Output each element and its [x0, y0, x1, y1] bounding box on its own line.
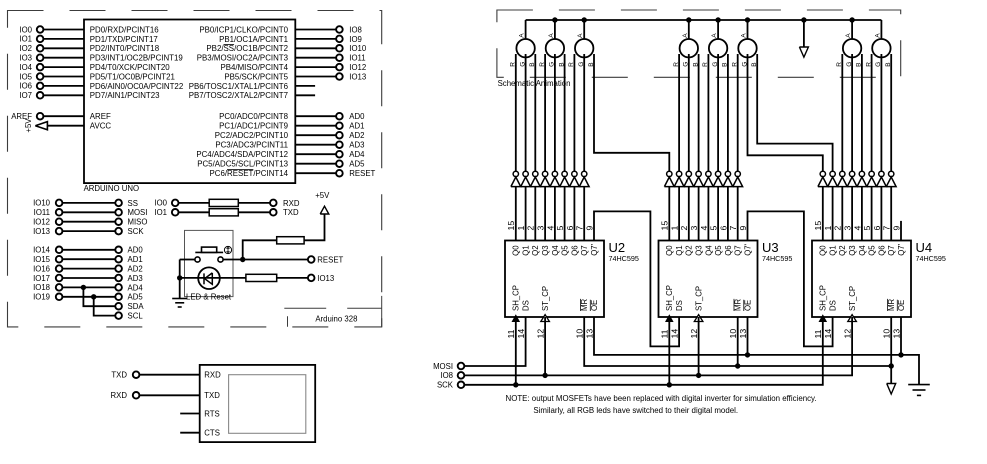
svg-text:IO3: IO3	[19, 54, 32, 63]
svg-text:6: 6	[718, 226, 728, 231]
svg-text:SCK: SCK	[128, 227, 145, 236]
svg-text:4: 4	[699, 226, 709, 231]
svg-text:A: A	[845, 33, 852, 38]
svg-text:RXD: RXD	[283, 199, 300, 208]
svg-text:Q3: Q3	[695, 245, 704, 255]
svg-text:DS: DS	[675, 300, 684, 311]
svg-text:IO4: IO4	[19, 63, 32, 72]
svg-text:IO15: IO15	[33, 255, 51, 264]
svg-text:IO19: IO19	[33, 293, 50, 302]
svg-text:MISO: MISO	[128, 218, 148, 227]
svg-text:+5V: +5V	[315, 191, 330, 200]
svg-text:AD4: AD4	[128, 283, 144, 292]
svg-text:RESET: RESET	[349, 169, 375, 178]
svg-text:74HC595: 74HC595	[762, 254, 792, 263]
svg-text:U2: U2	[609, 240, 626, 255]
svg-text:A: A	[682, 33, 689, 38]
svg-text:DS: DS	[522, 300, 531, 311]
svg-text:AD0: AD0	[349, 112, 365, 121]
svg-text:CTS: CTS	[204, 429, 220, 438]
svg-text:11: 11	[660, 329, 670, 338]
svg-text:IO8: IO8	[440, 371, 453, 380]
svg-text:IO14: IO14	[33, 246, 51, 255]
svg-text:Q7': Q7'	[743, 243, 752, 255]
svg-text:ST_CP: ST_CP	[541, 286, 550, 311]
svg-text:AD5: AD5	[128, 293, 144, 302]
svg-text:AD2: AD2	[349, 131, 364, 140]
svg-text:74HC595: 74HC595	[609, 254, 639, 263]
svg-text:AD1: AD1	[349, 122, 364, 131]
svg-text:12: 12	[689, 329, 699, 339]
svg-text:A: A	[548, 33, 555, 38]
svg-text:14: 14	[670, 329, 680, 339]
svg-text:OE: OE	[897, 300, 906, 311]
svg-text:IO11: IO11	[34, 208, 50, 217]
svg-text:10: 10	[728, 329, 738, 339]
svg-text:15: 15	[813, 221, 823, 231]
svg-text:3: 3	[843, 226, 853, 231]
svg-text:PD2/INT0/PCINT18: PD2/INT0/PCINT18	[90, 44, 160, 53]
svg-text:Q6: Q6	[724, 245, 733, 255]
svg-text:A: A	[711, 33, 718, 38]
svg-text:2: 2	[526, 226, 536, 231]
svg-text:Q6: Q6	[877, 245, 886, 255]
svg-text:Q2: Q2	[531, 245, 540, 255]
svg-text:IO0: IO0	[154, 199, 167, 208]
svg-text:PD1/TXD/PCINT17: PD1/TXD/PCINT17	[90, 35, 158, 44]
svg-text:IO1: IO1	[19, 35, 32, 44]
svg-text:+5V: +5V	[24, 118, 33, 133]
svg-text:9: 9	[584, 226, 594, 231]
svg-text:9: 9	[891, 226, 901, 231]
svg-text:SH_CP: SH_CP	[512, 285, 521, 311]
svg-text:AD1: AD1	[128, 255, 143, 264]
svg-text:AD3: AD3	[128, 274, 143, 283]
svg-text:SS: SS	[128, 199, 138, 208]
svg-text:10: 10	[882, 329, 892, 339]
svg-text:10: 10	[575, 329, 585, 339]
svg-text:AD4: AD4	[349, 150, 365, 159]
svg-text:7: 7	[575, 226, 585, 231]
svg-text:OE: OE	[590, 300, 599, 311]
svg-text:MR: MR	[580, 299, 589, 311]
svg-text:SCK: SCK	[437, 381, 454, 390]
svg-text:PC6/RESET/PCINT14: PC6/RESET/PCINT14	[209, 169, 288, 178]
svg-text:11: 11	[506, 329, 516, 338]
svg-text:13: 13	[584, 329, 594, 339]
svg-text:AD3: AD3	[349, 141, 364, 150]
svg-text:IO8: IO8	[349, 25, 362, 34]
svg-text:11: 11	[813, 329, 823, 338]
svg-text:Q0: Q0	[665, 245, 674, 256]
svg-text:4: 4	[545, 226, 555, 231]
svg-text:Q7': Q7'	[590, 243, 599, 255]
svg-text:Schematic Animation: Schematic Animation	[498, 79, 571, 88]
svg-text:Q0: Q0	[512, 245, 521, 256]
svg-text:PC4/ADC4/SDA/PCINT12: PC4/ADC4/SDA/PCINT12	[196, 150, 288, 159]
svg-text:U3: U3	[762, 240, 779, 255]
svg-text:RTS: RTS	[204, 409, 219, 418]
svg-text:IO12: IO12	[349, 63, 366, 72]
svg-text:IO5: IO5	[19, 72, 32, 81]
svg-text:7: 7	[728, 226, 738, 231]
svg-text:PD5/T1/OC0B/PCINT21: PD5/T1/OC0B/PCINT21	[90, 72, 175, 81]
svg-text:PC2/ADC2/PCINT10: PC2/ADC2/PCINT10	[215, 131, 289, 140]
svg-text:PC3/ADC3/PCINT11: PC3/ADC3/PCINT11	[215, 141, 288, 150]
svg-text:PB7/TOSC2/XTAL2/PCINT7: PB7/TOSC2/XTAL2/PCINT7	[189, 91, 288, 100]
svg-text:12: 12	[843, 329, 853, 339]
svg-text:SDA: SDA	[128, 302, 145, 311]
svg-text:A: A	[741, 33, 748, 38]
svg-text:Q7: Q7	[580, 245, 589, 255]
svg-text:Q1: Q1	[522, 245, 531, 255]
svg-text:RXD: RXD	[204, 371, 221, 380]
svg-text:Q5: Q5	[714, 245, 723, 256]
svg-text:PB1/OC1A/PCINT1: PB1/OC1A/PCINT1	[219, 35, 288, 44]
svg-text:RXD: RXD	[111, 391, 128, 400]
svg-text:RESET: RESET	[317, 255, 343, 264]
svg-text:ARDUINO UNO: ARDUINO UNO	[84, 184, 139, 193]
svg-text:Q1: Q1	[829, 245, 838, 255]
svg-text:PB5/SCK/PCINT5: PB5/SCK/PCINT5	[224, 72, 288, 81]
svg-text:LED & Reset: LED & Reset	[186, 293, 232, 302]
svg-text:IO18: IO18	[33, 283, 50, 292]
svg-text:Q4: Q4	[551, 245, 560, 256]
svg-text:IO13: IO13	[33, 227, 50, 236]
svg-text:NOTE: output MOSFETs have been: NOTE: output MOSFETs have been replaced …	[506, 394, 817, 403]
svg-text:MR: MR	[734, 299, 743, 311]
svg-text:5: 5	[709, 226, 719, 231]
svg-text:PB0/ICP1/CLKO/PCINT0: PB0/ICP1/CLKO/PCINT0	[199, 25, 288, 34]
svg-text:MOSI: MOSI	[433, 362, 453, 371]
svg-text:MR: MR	[887, 299, 896, 311]
svg-text:5: 5	[862, 226, 872, 231]
svg-text:PD3/INT1/OC2B/PCINT19: PD3/INT1/OC2B/PCINT19	[90, 54, 184, 63]
svg-text:Q2: Q2	[838, 245, 847, 255]
svg-text:PC0/ADC0/PCINT8: PC0/ADC0/PCINT8	[219, 112, 288, 121]
svg-text:3: 3	[536, 226, 546, 231]
svg-text:Q4: Q4	[704, 245, 713, 256]
svg-text:13: 13	[738, 329, 748, 339]
svg-text:1: 1	[516, 226, 526, 231]
svg-text:ST_CP: ST_CP	[695, 286, 704, 311]
svg-text:2: 2	[833, 226, 843, 231]
svg-text:PC1/ADC1/PCINT9: PC1/ADC1/PCINT9	[219, 122, 288, 131]
svg-text:IO16: IO16	[33, 264, 50, 273]
svg-text:IO7: IO7	[19, 91, 32, 100]
svg-text:IO10: IO10	[349, 44, 367, 53]
svg-text:TXD: TXD	[283, 208, 299, 217]
svg-text:IO12: IO12	[33, 218, 50, 227]
svg-text:14: 14	[823, 329, 833, 339]
svg-text:AD5: AD5	[349, 160, 365, 169]
svg-text:Q1: Q1	[675, 245, 684, 255]
svg-text:9: 9	[738, 226, 748, 231]
svg-text:PD6/AIN0/OC0A/PCINT22: PD6/AIN0/OC0A/PCINT22	[90, 82, 183, 91]
svg-text:Q0: Q0	[819, 245, 828, 256]
svg-text:IO2: IO2	[19, 44, 32, 53]
svg-text:4: 4	[852, 226, 862, 231]
svg-text:Q7: Q7	[734, 245, 743, 255]
svg-text:PB2/SS/OC1B/PCINT2: PB2/SS/OC1B/PCINT2	[206, 44, 288, 53]
svg-text:SH_CP: SH_CP	[819, 285, 828, 311]
svg-text:A: A	[577, 33, 584, 38]
svg-text:1: 1	[670, 226, 680, 231]
svg-text:7: 7	[882, 226, 892, 231]
svg-text:14: 14	[516, 329, 526, 339]
svg-text:AD2: AD2	[128, 265, 143, 274]
svg-text:PB6/TOSC1/XTAL1/PCINT6: PB6/TOSC1/XTAL1/PCINT6	[189, 82, 289, 91]
svg-text:Q2: Q2	[685, 245, 694, 255]
svg-text:6: 6	[872, 226, 882, 231]
svg-text:IO11: IO11	[349, 54, 365, 63]
svg-text:Q3: Q3	[541, 245, 550, 255]
svg-text:PB4/MISO/PCINT4: PB4/MISO/PCINT4	[220, 63, 288, 72]
svg-text:TXD: TXD	[111, 371, 127, 380]
svg-text:Q4: Q4	[858, 245, 867, 256]
svg-text:IO10: IO10	[33, 199, 51, 208]
svg-text:IO0: IO0	[19, 25, 32, 34]
svg-text:12: 12	[536, 329, 546, 339]
svg-text:6: 6	[565, 226, 575, 231]
svg-text:IO1: IO1	[154, 208, 167, 217]
svg-text:AREF: AREF	[90, 112, 111, 121]
svg-text:ST_CP: ST_CP	[848, 286, 857, 311]
svg-text:AVCC: AVCC	[90, 122, 112, 131]
svg-text:15: 15	[660, 221, 670, 231]
svg-text:OE: OE	[743, 300, 752, 311]
svg-text:AD0: AD0	[128, 246, 144, 255]
svg-text:74HC595: 74HC595	[916, 254, 946, 263]
svg-text:IO6: IO6	[19, 82, 32, 91]
svg-text:MOSI: MOSI	[128, 208, 148, 217]
svg-text:5: 5	[555, 226, 565, 231]
svg-text:SCL: SCL	[128, 312, 144, 321]
svg-text:Similarly, all RGB leds have s: Similarly, all RGB leds have switched to…	[533, 406, 738, 415]
svg-text:DS: DS	[829, 300, 838, 311]
svg-text:PC5/ADC5/SCL/PCINT13: PC5/ADC5/SCL/PCINT13	[197, 160, 288, 169]
svg-text:U4: U4	[916, 240, 933, 255]
svg-text:1: 1	[823, 226, 833, 231]
svg-text:A: A	[519, 33, 526, 38]
svg-text:IO17: IO17	[33, 274, 50, 283]
svg-text:13: 13	[891, 329, 901, 339]
svg-text:Arduino 328: Arduino 328	[315, 314, 357, 323]
svg-text:Q5: Q5	[561, 245, 570, 256]
svg-text:PD0/RXD/PCINT16: PD0/RXD/PCINT16	[90, 25, 159, 34]
svg-text:Q7: Q7	[887, 245, 896, 255]
svg-text:SH_CP: SH_CP	[665, 285, 674, 311]
svg-text:Q5: Q5	[868, 245, 877, 256]
svg-text:IO13: IO13	[349, 72, 366, 81]
svg-text:Q7': Q7'	[897, 243, 906, 255]
svg-text:PB3/MOSI/OC2A/PCINT3: PB3/MOSI/OC2A/PCINT3	[197, 54, 289, 63]
svg-text:PD4/T0/XCK/PCINT20: PD4/T0/XCK/PCINT20	[90, 63, 170, 72]
svg-text:A: A	[874, 33, 881, 38]
svg-text:IO13: IO13	[317, 274, 334, 283]
svg-text:2: 2	[679, 226, 689, 231]
svg-text:Q6: Q6	[570, 245, 579, 255]
svg-text:15: 15	[506, 221, 516, 231]
svg-text:3: 3	[689, 226, 699, 231]
svg-text:TXD: TXD	[204, 391, 220, 400]
svg-text:PD7/AIN1/PCINT23: PD7/AIN1/PCINT23	[90, 91, 160, 100]
svg-text:IO9: IO9	[349, 35, 362, 44]
svg-text:Q3: Q3	[848, 245, 857, 255]
